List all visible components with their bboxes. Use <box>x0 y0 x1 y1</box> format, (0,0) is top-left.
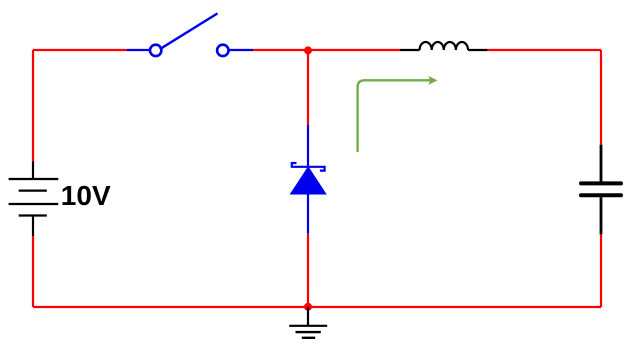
capacitor <box>581 145 621 235</box>
current direction arrow <box>358 76 438 152</box>
junction top <box>304 46 312 54</box>
junction bottom <box>304 303 312 311</box>
wire right side upper red <box>600 50 602 145</box>
wire top-left red (battery top to switch) <box>33 49 127 51</box>
switch <box>127 13 253 56</box>
wire switch to top junction red <box>253 49 308 51</box>
wire middle lower red (diode to bottom junction) <box>307 234 309 307</box>
wire left side upper red <box>32 50 34 162</box>
inductor <box>400 42 488 50</box>
ground <box>289 307 327 338</box>
wire right side lower red <box>600 234 602 307</box>
wire left side lower red <box>32 236 34 307</box>
wire bottom red <box>33 306 601 308</box>
wire inductor to top-right corner red <box>488 49 601 51</box>
wire top junction to inductor red <box>308 49 400 51</box>
battery 10V <box>9 162 59 237</box>
wire middle upper red (top junction to diode) <box>307 50 309 125</box>
label 10V <box>61 180 111 211</box>
svg-text:10V: 10V <box>61 180 111 211</box>
diode (Schottky) <box>291 125 325 234</box>
